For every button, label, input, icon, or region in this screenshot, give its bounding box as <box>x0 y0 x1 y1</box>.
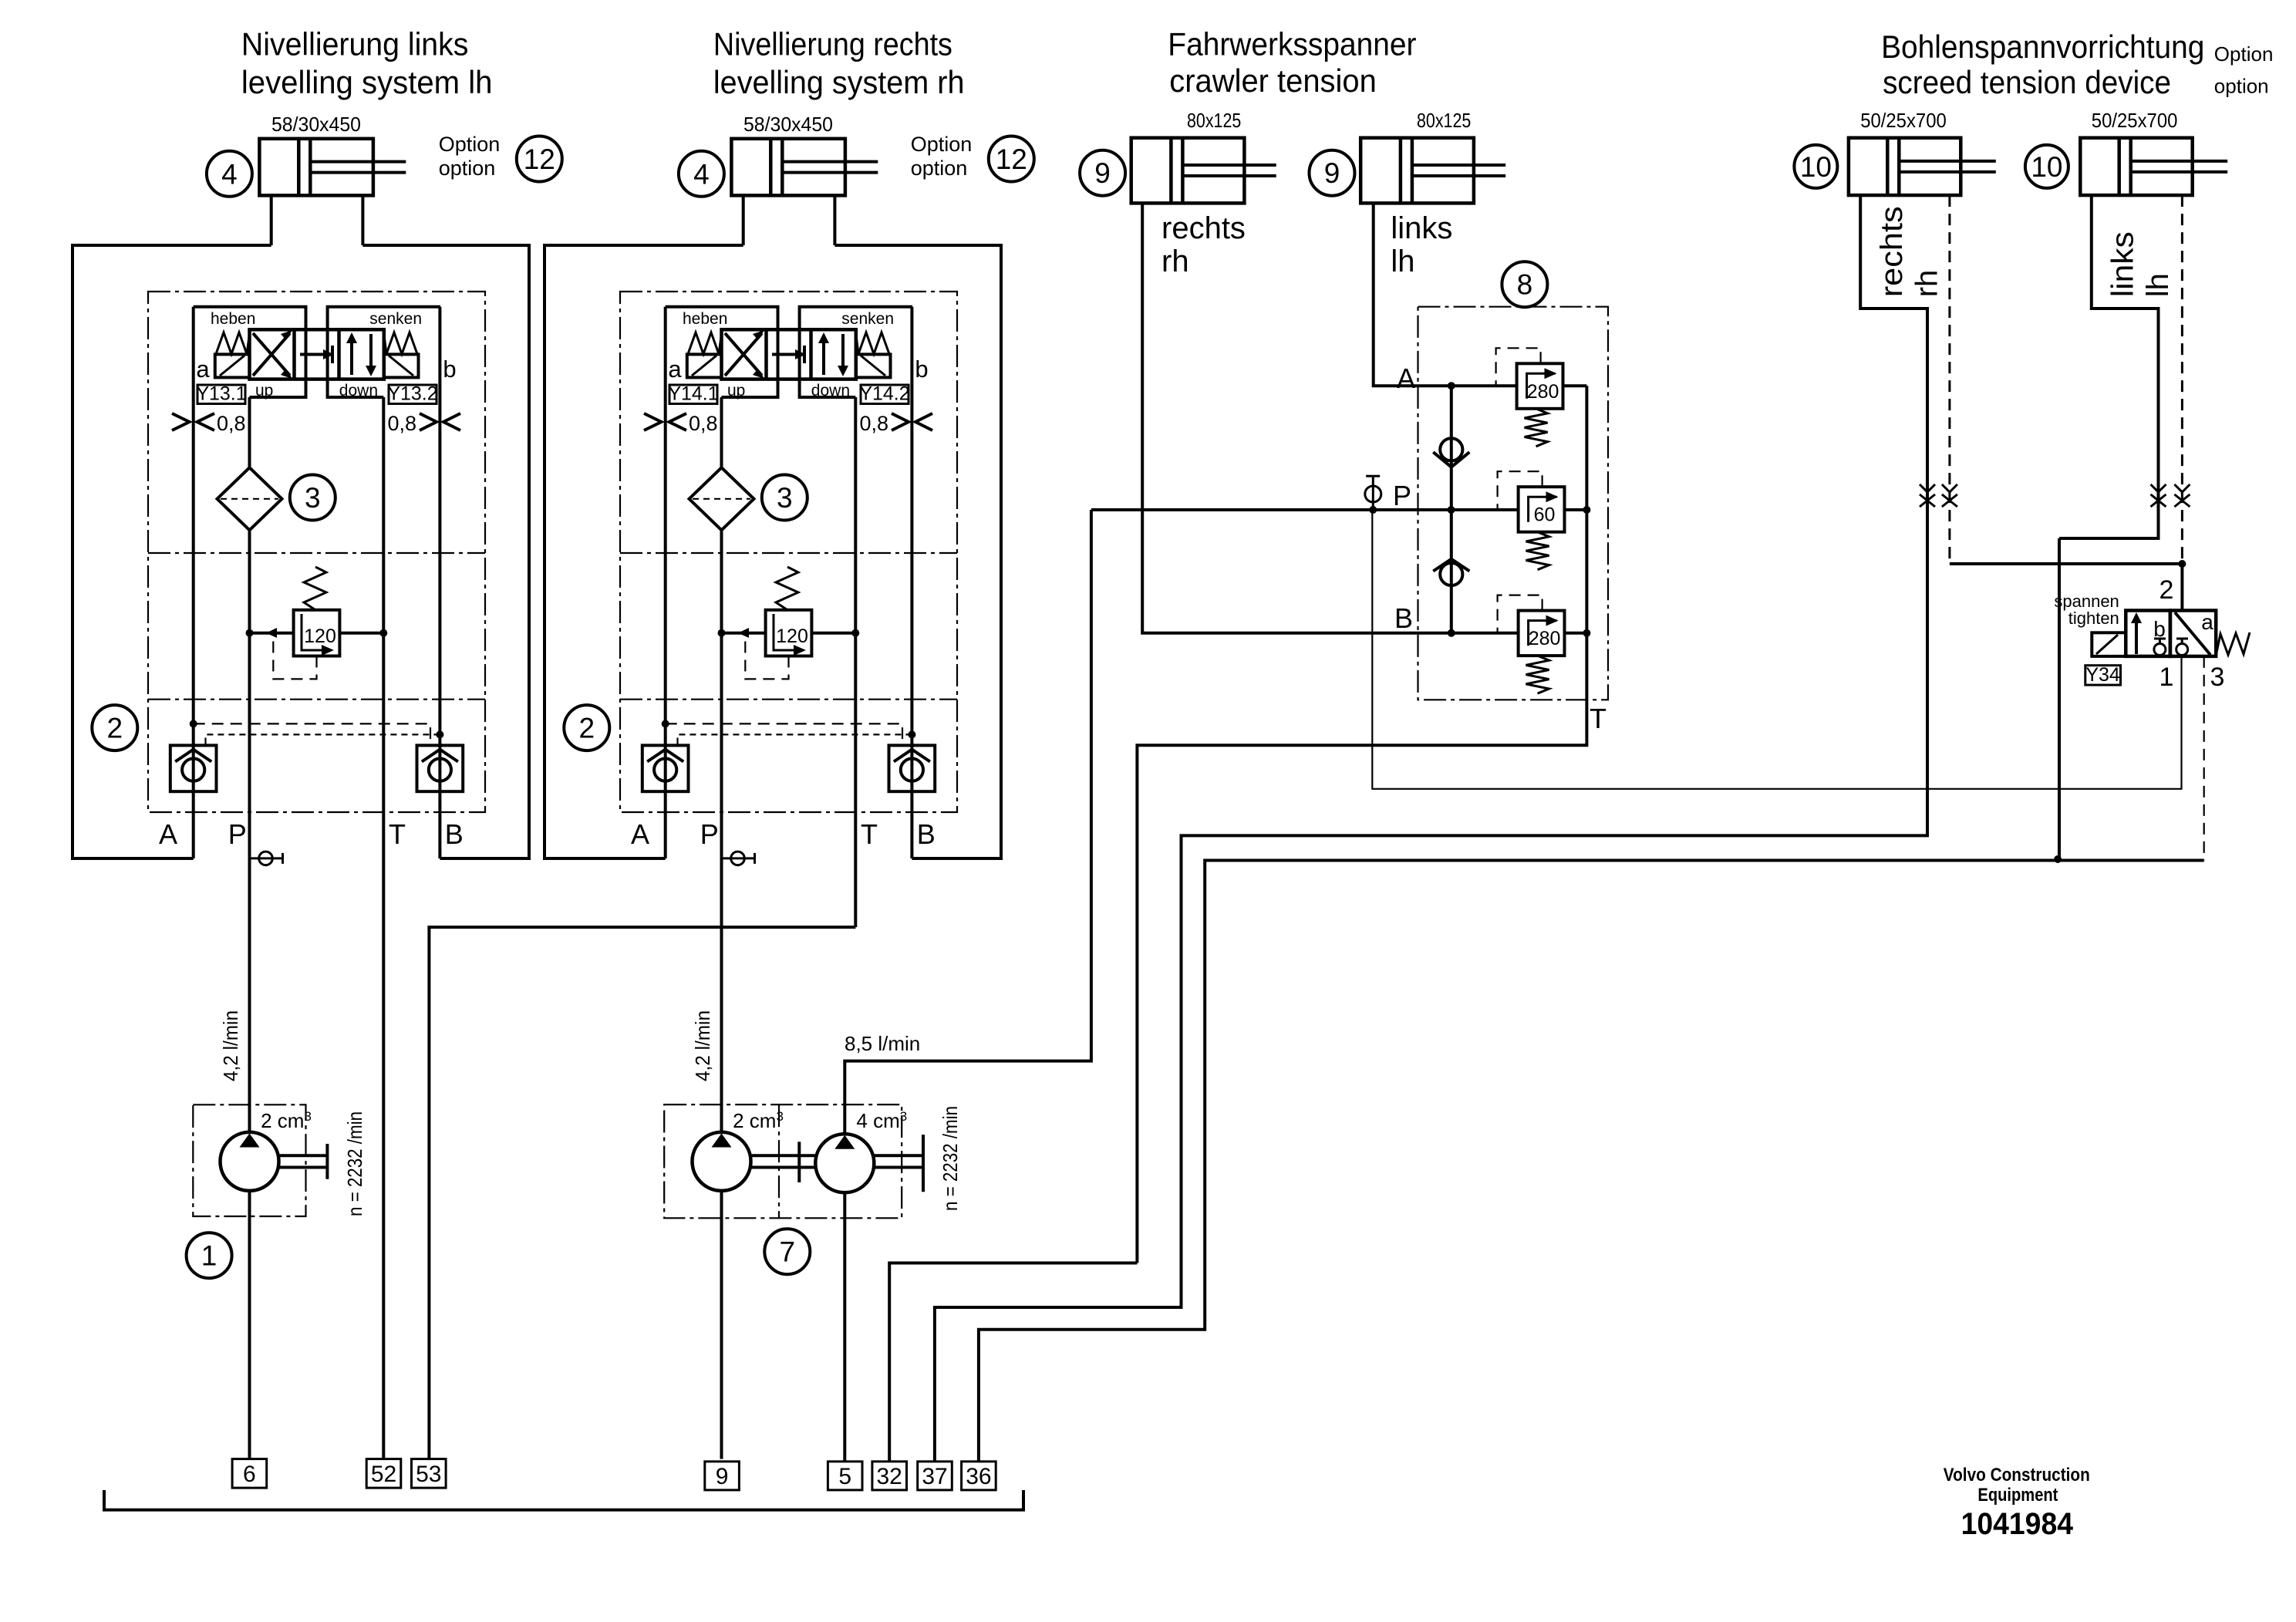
wire P into block <box>1091 508 1519 511</box>
balloon 9 <box>1080 150 1125 196</box>
wire screed lh rod (hose) <box>2181 195 2183 564</box>
svg-text:T: T <box>1590 703 1607 734</box>
block 8 boundary <box>1418 307 1609 700</box>
svg-text:levelling system lh: levelling system lh <box>241 64 493 100</box>
connector 52 <box>366 1459 401 1489</box>
svg-text:10: 10 <box>1800 151 1832 183</box>
svg-text:Volvo Construction: Volvo Construction <box>1944 1465 2090 1485</box>
svg-text:Bohlenspannvorrichtung: Bohlenspannvorrichtung <box>1881 29 2204 65</box>
svg-text:B: B <box>1394 602 1413 634</box>
relief valve 60 <box>1498 471 1565 570</box>
relief valve 280 <box>1496 348 1563 447</box>
wire block8 T to 32 <box>889 1263 1137 1462</box>
svg-text:Y14.1: Y14.1 <box>668 383 718 405</box>
svg-text:Y14.2: Y14.2 <box>859 383 909 405</box>
wire port1 feed <box>1372 510 2181 789</box>
wire port3 riser <box>2203 656 2205 861</box>
svg-text:tighten: tighten <box>2068 609 2119 628</box>
svg-text:60: 60 <box>1534 504 1556 526</box>
svg-text:8,5 l/min: 8,5 l/min <box>845 1032 920 1055</box>
svg-text:lh: lh <box>1391 244 1414 278</box>
cylinder screed lh <box>2080 138 2227 195</box>
wire crawler rh to B <box>1142 203 1518 632</box>
wire to 53 <box>429 927 855 1459</box>
wire screed lh cap to tank <box>2059 195 2159 859</box>
svg-text:rh: rh <box>1161 244 1189 278</box>
svg-text:80x125: 80x125 <box>1417 109 1471 132</box>
svg-text:Nivellierung links: Nivellierung links <box>241 26 469 62</box>
svg-text:280: 280 <box>1529 628 1561 649</box>
svg-text:37: 37 <box>922 1464 947 1489</box>
coupling mark <box>1920 484 1935 507</box>
svg-text:Fahrwerksspanner: Fahrwerksspanner <box>1168 26 1416 62</box>
svg-text:rh: rh <box>1910 270 1944 298</box>
coupling mark <box>2151 484 2166 507</box>
connector 36 <box>962 1462 996 1490</box>
wire screed rh cap <box>935 195 1927 1462</box>
test point P crawler <box>1365 476 1381 510</box>
svg-text:Equipment: Equipment <box>1977 1485 2058 1506</box>
check valve column <box>1450 386 1453 633</box>
label Y13.1 <box>196 383 246 405</box>
balloon 10 <box>2025 145 2068 188</box>
svg-text:b: b <box>2153 617 2166 641</box>
balloon 1 <box>187 1233 232 1278</box>
wire 8,5 l/min feed <box>845 510 1091 1134</box>
wire T-line left <box>382 397 385 1459</box>
label Y14.2 <box>859 383 909 405</box>
svg-text:8: 8 <box>1517 269 1533 301</box>
svg-text:P: P <box>1393 480 1411 511</box>
valve Y34 <box>2126 610 2216 656</box>
coupling mark <box>1942 484 1957 507</box>
connector 37 <box>918 1462 952 1490</box>
relief valve 280 <box>1498 595 1565 694</box>
wire A past valve <box>1565 384 1587 387</box>
wire screed rh rod (hose) <box>1948 195 1950 564</box>
svg-text:levelling system rh: levelling system rh <box>713 64 965 100</box>
svg-text:1: 1 <box>2159 663 2174 692</box>
bottom bracket line <box>104 1490 1023 1510</box>
svg-text:A: A <box>1397 363 1415 394</box>
pump 7 second pump <box>815 1134 874 1192</box>
wire pump2 to connector 5 <box>843 1192 846 1462</box>
svg-text:7: 7 <box>780 1236 796 1268</box>
cylinder screed rh <box>1849 138 1996 195</box>
svg-text:option: option <box>2214 75 2269 98</box>
svg-text:2: 2 <box>2159 575 2174 605</box>
connector 6 <box>232 1459 267 1489</box>
balloon 8 <box>1502 261 1547 307</box>
svg-text:a: a <box>2201 610 2213 634</box>
check valve P-A <box>1433 438 1469 467</box>
cylinder crawler rh <box>1131 138 1276 204</box>
svg-text:5: 5 <box>838 1464 851 1489</box>
coupling mark <box>2174 484 2190 507</box>
connector 53 <box>412 1459 447 1489</box>
svg-text:n = 2232 /min: n = 2232 /min <box>939 1106 962 1211</box>
check valve B-P <box>1433 559 1469 585</box>
balloon 9 <box>1310 150 1355 196</box>
label Y34 <box>2085 664 2121 686</box>
svg-text:6: 6 <box>243 1462 256 1487</box>
wire port2 riser <box>2180 564 2183 611</box>
pump 7 shafts <box>750 1154 815 1157</box>
spring Y34 <box>2216 632 2250 656</box>
pump 1 dashed box <box>193 1104 305 1216</box>
svg-text:links: links <box>1391 211 1452 245</box>
wire tank line 36 <box>979 861 2204 1462</box>
svg-text:1: 1 <box>201 1240 217 1272</box>
levelling system lh assembly <box>72 113 562 1459</box>
connector 5 <box>828 1462 862 1490</box>
connector 9 <box>705 1462 740 1490</box>
svg-text:rechts: rechts <box>1875 206 1909 297</box>
svg-text:9: 9 <box>1324 157 1340 189</box>
wire T collector <box>1137 386 1586 1263</box>
wire crawler lh to A <box>1374 203 1517 386</box>
svg-text:9: 9 <box>716 1464 729 1489</box>
label Y13.2 <box>387 383 437 405</box>
svg-text:4 cm3: 4 cm3 <box>856 1109 907 1132</box>
wire T-line right <box>854 397 857 927</box>
svg-text:crawler tension: crawler tension <box>1169 62 1377 99</box>
svg-text:Y34: Y34 <box>2085 664 2120 686</box>
svg-text:Y13.1: Y13.1 <box>196 383 246 405</box>
svg-text:screed tension device: screed tension device <box>1883 64 2171 100</box>
svg-text:280: 280 <box>1527 381 1559 403</box>
svg-text:53: 53 <box>416 1462 441 1487</box>
svg-text:Y13.2: Y13.2 <box>387 383 437 405</box>
cylinder crawler lh <box>1360 138 1505 204</box>
svg-text:9: 9 <box>1094 157 1111 189</box>
solenoid Y34 <box>2092 632 2126 656</box>
svg-text:links: links <box>2106 231 2140 297</box>
wire B past valve <box>1565 632 1587 635</box>
svg-text:10: 10 <box>2031 151 2062 183</box>
svg-text:50/25x700: 50/25x700 <box>1860 109 1947 132</box>
balloon 7 <box>764 1229 810 1274</box>
pump 1 shaft <box>279 1154 328 1157</box>
svg-text:Option: Option <box>2214 42 2274 66</box>
svg-text:Nivellierung rechts: Nivellierung rechts <box>713 26 952 62</box>
svg-text:52: 52 <box>371 1462 396 1487</box>
svg-text:32: 32 <box>877 1464 902 1489</box>
balloon 10 <box>1794 145 1837 188</box>
svg-text:1041984: 1041984 <box>1961 1507 2074 1541</box>
svg-text:80x125: 80x125 <box>1187 109 1241 132</box>
wire rod manifold <box>1950 562 2183 565</box>
label Y14.1 <box>668 383 718 405</box>
svg-text:rechts: rechts <box>1161 211 1246 245</box>
svg-text:50/25x700: 50/25x700 <box>2092 109 2178 132</box>
levelling system rh assembly <box>544 113 1034 1459</box>
svg-text:3: 3 <box>2210 663 2225 692</box>
svg-text:36: 36 <box>966 1464 991 1489</box>
connector 32 <box>872 1462 907 1490</box>
pump 7 dashed box <box>664 1104 902 1218</box>
svg-text:n = 2232 /min: n = 2232 /min <box>343 1111 366 1216</box>
svg-text:lh: lh <box>2141 273 2175 297</box>
